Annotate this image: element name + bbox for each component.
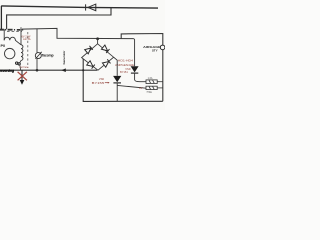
label AIRGAGE [143, 45, 161, 53]
svg-text:VSD: VSD [99, 77, 104, 81]
wire meter bottom [36, 59, 38, 71]
current direction arrow on return wire [61, 68, 66, 72]
wire bottom rail [83, 59, 163, 102]
tachometer M1 [35, 52, 42, 59]
svg-text:7.5A: 7.5A [146, 90, 152, 94]
wire riser to upper rail [121, 34, 163, 102]
diode HD2 (top-right edge) [101, 45, 109, 53]
diode HD4 (bottom-right edge) [102, 59, 110, 67]
red X annotation [18, 72, 27, 81]
wire generator return (y70) [0, 69, 97, 71]
wire branch to R2 [117, 85, 146, 88]
stator crown arcs [4, 37, 21, 45]
wire rail upper-left to jog [22, 28, 134, 38]
terminal circle on right wire [160, 45, 165, 50]
svg-text:Tacomp: Tacomp [42, 54, 54, 58]
wire riser bridge top [97, 39, 99, 44]
wire loops to return [19, 65, 22, 70]
label red coil note [22, 35, 32, 41]
junction dot left corner wire [82, 69, 84, 71]
diode HD1 (top-left edge) [85, 46, 93, 54]
svg-text:coil 3A: coil 3A [23, 38, 31, 41]
svg-text:reversing: reversing [0, 69, 14, 73]
svg-text:STY: STY [152, 48, 158, 52]
generator G1 [5, 48, 15, 58]
svg-text:1.6A: 1.6A [148, 77, 153, 80]
bridge rectifier HD1-HD4 [82, 44, 114, 70]
svg-text:RV: RV [139, 87, 143, 90]
red arrow to D3 [105, 82, 110, 84]
svg-text:P0: P0 [1, 44, 6, 48]
wire top A [1, 6, 158, 8]
svg-text:BY155: BY155 [92, 81, 105, 85]
dashed enclosure right [27, 32, 29, 68]
load R1 (upper box) [146, 80, 163, 84]
svg-text:BY151: BY151 [120, 70, 128, 74]
diode D3 VSD BY155 (filled, down) [113, 57, 121, 101]
wire crown feed [3, 29, 5, 40]
label VSD BY155 [92, 77, 105, 85]
label marks on rail [0, 29, 23, 31]
svg-text:cut here: cut here [20, 66, 30, 69]
wire coil riser [20, 27, 22, 45]
wire meter top [36, 29, 38, 53]
label reversing (dark text on wire) [0, 69, 14, 73]
wire B (inner loop) [7, 8, 111, 30]
diode D1 (on top wire, pointing left) [86, 4, 96, 11]
dashed enclosure top [7, 31, 22, 33]
diode HD3 (bottom-left edge) [87, 61, 95, 69]
diode D2 VSD BY151 (filled, down) [131, 39, 146, 82]
label VSD BY151 [120, 67, 131, 74]
stator coil L1 [21, 45, 23, 61]
junction dot meter/return [36, 69, 39, 72]
svg-text:Generator: Generator [62, 50, 66, 65]
svg-text:HD1-HD4: HD1-HD4 [118, 58, 134, 62]
wire coil to loops [20, 61, 21, 63]
label HD1-HD4 [115, 58, 134, 67]
coil end loops [16, 62, 18, 64]
ground arrow (crossed out) [20, 70, 25, 85]
wire left vertical [0, 6, 2, 29]
junction dot rail/bridge [96, 37, 99, 40]
load R2 (lower box) [146, 86, 163, 89]
